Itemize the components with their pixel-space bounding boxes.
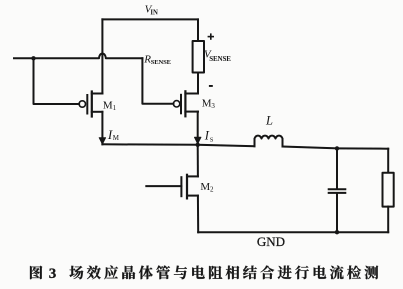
node: cap bottom junction dot <box>335 230 339 234</box>
svg-text:GND: GND <box>257 234 285 249</box>
svg-text:M: M <box>113 134 120 142</box>
wire: load resistor bottom to bottom rail <box>387 207 389 233</box>
inductor L <box>255 136 283 147</box>
wire: GND bottom rail <box>198 231 388 233</box>
label IS <box>204 129 214 144</box>
wire: input wire with hop over left column <box>14 53 142 58</box>
wire: cap top lead <box>336 148 338 188</box>
label VSENSE <box>204 49 231 63</box>
label RSENSE <box>143 53 171 66</box>
transistor M1 (PMOS) <box>79 92 102 117</box>
svg-text:1: 1 <box>113 104 117 112</box>
transistor M3 (PMOS) <box>173 91 198 116</box>
wire: input corner down and right to M3 gate <box>142 58 173 104</box>
node: input junction dot <box>31 56 35 60</box>
label M1 <box>103 99 117 112</box>
wire: cap junction to right column <box>337 147 388 149</box>
wire: junction down and right to M1 gate <box>34 58 80 104</box>
wire: M2 source down to bottom rail <box>197 196 199 233</box>
capacitor C <box>329 189 346 193</box>
svg-text:3: 3 <box>211 102 215 110</box>
wire: VIN top rail <box>102 18 198 20</box>
wire: right column down to load resistor <box>387 149 389 173</box>
label IM <box>107 127 120 142</box>
wire: mid junction down to M2 drain <box>197 145 199 177</box>
caption text: 图 3 场效应晶体管与电阻相结合进行电流检测 <box>30 266 378 282</box>
svg-text:SENSE: SENSE <box>151 59 172 66</box>
svg-text:S: S <box>210 137 214 144</box>
label M2 <box>200 181 214 194</box>
wire: M3 source down to mid rail junction <box>197 112 199 145</box>
resistor load body <box>383 173 394 207</box>
label plus <box>208 33 214 39</box>
svg-text:L: L <box>265 113 273 127</box>
wire: mid rail junction to inductor <box>198 145 255 146</box>
svg-text:SENSE: SENSE <box>209 55 231 63</box>
svg-text:M: M <box>200 181 210 193</box>
svg-text:3: 3 <box>49 266 57 282</box>
wire: RSENSE bottom to M3 drain <box>197 73 199 94</box>
node: mid rail junction dot <box>196 143 200 147</box>
wire: inductor to cap junction <box>283 147 338 149</box>
resistor RSENSE body <box>193 41 204 73</box>
svg-text:M: M <box>103 99 113 111</box>
wire: left column from VIN rail down to M1 drain <box>101 19 103 93</box>
svg-text:IN: IN <box>150 9 158 16</box>
wire: M1 source down to mid rail <box>101 112 103 145</box>
current arrow IM <box>99 135 105 144</box>
label M3 <box>202 98 216 111</box>
current arrow IS <box>195 135 201 144</box>
transistor M2 (NMOS) <box>146 175 198 199</box>
wire: cap bottom lead <box>336 194 338 232</box>
label VIN <box>145 4 158 17</box>
svg-text:M: M <box>202 98 212 110</box>
node: cap top junction dot <box>335 146 339 150</box>
label minus <box>209 85 213 87</box>
wire: mid rail from M1 source to junction <box>102 143 197 146</box>
wire: right column from VIN rail down to RSENSE top <box>197 19 199 41</box>
svg-text:2: 2 <box>210 186 214 194</box>
